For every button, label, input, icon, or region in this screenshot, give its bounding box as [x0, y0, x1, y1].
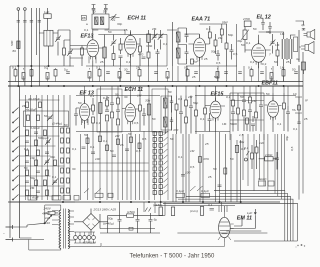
- svg-text:25: 25: [192, 75, 196, 79]
- wire T2 links: [178, 28, 187, 64]
- B3 column x176: [175, 96, 178, 135]
- svg-text:100: 100: [185, 171, 190, 175]
- strip stub wires: [16, 68, 284, 82]
- resistor vert x202: [190, 207, 204, 216]
- speaker matching box: [294, 37, 298, 52]
- svg-text:50: 50: [241, 43, 245, 47]
- screen box V6 osc: [152, 89, 168, 132]
- output transformer T3: [282, 38, 292, 60]
- T2 trimmer bottom: [185, 47, 189, 60]
- svg-text:5µ: 5µ: [64, 68, 68, 72]
- T2 cross: [176, 32, 180, 58]
- svg-text:30µ: 30µ: [239, 140, 244, 144]
- screen box B3 IF can: [161, 96, 172, 130]
- ladder rails: [26, 95, 71, 200]
- svg-text:EAA 71: EAA 71: [192, 17, 211, 23]
- antenna jack A1: [17, 8, 20, 86]
- svg-text:25: 25: [100, 60, 104, 64]
- T2 trimmer top: [185, 30, 189, 43]
- svg-text:10p: 10p: [30, 156, 35, 160]
- ladder row y182: [20, 176, 65, 186]
- ladder row y142: [20, 136, 56, 146]
- svg-text:0,1: 0,1: [246, 41, 251, 45]
- cap marks x211: [208, 203, 214, 210]
- middle switch arrows: [84, 189, 101, 194]
- text 80 coil: [13, 49, 17, 53]
- svg-text:ECH 11: ECH 11: [128, 16, 146, 22]
- wires left of V1: [70, 46, 87, 59]
- svg-text:0,2: 0,2: [250, 60, 255, 64]
- osc trimmer 1: [152, 30, 158, 50]
- middle verticals: [81, 131, 150, 200]
- svg-text:EBF11: EBF11: [262, 81, 278, 87]
- coupling caps top: [261, 18, 272, 34]
- detector extra text: [204, 27, 238, 61]
- svg-text:0,5: 0,5: [190, 165, 195, 169]
- psu switch arrows: [145, 208, 151, 212]
- svg-text:0,5: 0,5: [233, 52, 238, 56]
- psu box 01u: [129, 227, 133, 230]
- detector top wire: [200, 24, 237, 66]
- B3 column x181: [179, 96, 183, 134]
- svg-text:25: 25: [204, 142, 209, 146]
- svg-text:50µ: 50µ: [108, 217, 113, 221]
- ZB box: [81, 16, 86, 21]
- V7 right column x238: [237, 93, 240, 131]
- svg-text:0,5: 0,5: [290, 146, 294, 151]
- svg-text:80: 80: [13, 49, 17, 53]
- pilot stubs: [76, 232, 94, 243]
- IF can2 trimmers: [170, 96, 173, 131]
- wire speakers down: [296, 21, 304, 62]
- svg-text:0,5: 0,5: [216, 61, 221, 65]
- svg-text:30: 30: [124, 68, 128, 72]
- svg-text:2M: 2M: [187, 95, 193, 99]
- svg-text:2M: 2M: [22, 104, 27, 108]
- svg-text:50: 50: [103, 10, 107, 14]
- svg-text:50: 50: [108, 30, 112, 34]
- V8 right parts: [283, 93, 291, 132]
- svg-text:0,1: 0,1: [178, 97, 183, 101]
- svg-text:50: 50: [92, 10, 96, 14]
- ladder box outline: [24, 111, 69, 127]
- ladder row y132: [20, 126, 60, 136]
- wire antenna verticals: [31, 8, 39, 86]
- capacitor C3b: [38, 21, 41, 23]
- trimmer right of T1: [109, 14, 120, 20]
- netz boxes: [258, 177, 274, 186]
- misc text sprinkle 4: [90, 137, 234, 179]
- IF can2 cross: [164, 98, 168, 127]
- tube V2 ECH11: [125, 32, 137, 58]
- V2 right parts column: [139, 38, 146, 66]
- right margin text: [292, 92, 308, 131]
- tube V8 EBF11: [268, 97, 279, 120]
- svg-text:50: 50: [78, 101, 82, 105]
- svg-text:30: 30: [124, 95, 128, 99]
- osc lower parts: [147, 49, 160, 66]
- svg-text:50p: 50p: [193, 101, 198, 105]
- svg-text:0,5: 0,5: [136, 149, 141, 153]
- svg-text:EF13: EF13: [81, 34, 94, 40]
- mains switch: [44, 215, 52, 224]
- row2 rail y95.5: [76, 95, 296, 97]
- svg-text:6-25: 6-25: [103, 96, 109, 100]
- right horizontals to corners: [163, 191, 297, 241]
- row2 text c: [226, 95, 257, 126]
- svg-text:1M: 1M: [275, 43, 280, 47]
- capacitor C1: [17, 21, 20, 23]
- decoupling strip parts: [14, 70, 298, 80]
- svg-text:50: 50: [84, 133, 88, 137]
- ladder right cluster: [61, 128, 70, 193]
- svg-text:0,1: 0,1: [24, 147, 29, 151]
- V1 left resistor R3: [81, 46, 84, 67]
- svg-text:0,1: 0,1: [206, 27, 211, 31]
- svg-text:3-30µF: 3-30µF: [30, 126, 41, 130]
- bottom frame line: [234, 240, 297, 242]
- wire converter bottom: [86, 30, 167, 66]
- svg-text:2M: 2M: [218, 36, 223, 40]
- V5 column x118 parts: [116, 96, 120, 131]
- V7 right column x244: [242, 93, 246, 131]
- svg-text:50p: 50p: [228, 33, 233, 37]
- bus wire y86: [8, 85, 303, 87]
- svg-text:17kΩ: 17kΩ: [265, 153, 273, 157]
- mains plug: [3, 225, 13, 242]
- trimmer C5: [55, 30, 61, 56]
- middle field parts: [82, 136, 142, 157]
- svg-text:2x: 2x: [112, 18, 116, 22]
- dirt specks: [296, 244, 306, 247]
- svg-text:240V: 240V: [43, 207, 52, 211]
- svg-text:0,1: 0,1: [52, 175, 57, 179]
- osc coil L2: [147, 30, 151, 52]
- tube V7 EF15: [210, 98, 221, 122]
- psu wires: [100, 202, 164, 233]
- wire V7 connections: [205, 86, 225, 132]
- svg-text:(zum): (zum): [190, 209, 198, 213]
- svg-text:30µ: 30µ: [285, 136, 289, 141]
- svg-text:25: 25: [304, 117, 308, 121]
- capacitor C6 above T1: [92, 5, 96, 15]
- top mid extra text: [84, 10, 128, 33]
- misc text sprinkle 3: [22, 104, 77, 190]
- svg-text:2M: 2M: [30, 186, 35, 190]
- svg-text:50: 50: [170, 137, 174, 141]
- svg-text:2G13 280V, A25: 2G13 280V, A25: [93, 208, 117, 212]
- long verticals mid-right: [173, 132, 241, 202]
- svg-text:0,1: 0,1: [84, 28, 89, 32]
- wire V3 connections: [185, 34, 210, 66]
- svg-text:0,1: 0,1: [90, 94, 95, 98]
- pilot lamps: [74, 236, 96, 240]
- capacitor C7 above T1: [104, 5, 108, 15]
- speaker SP1: [304, 30, 315, 40]
- volume pot R9: [241, 27, 249, 53]
- V6 right column x144: [142, 108, 146, 126]
- bus wire y202: [8, 201, 280, 203]
- V7 right column x256: [255, 93, 258, 131]
- capacitor C2: [23, 21, 26, 23]
- antenna jack A2: [24, 8, 27, 86]
- contact bank rails: [155, 131, 168, 202]
- fuse F1: [27, 211, 58, 225]
- column x120 parts: [119, 38, 123, 66]
- svg-text:0,1: 0,1: [277, 122, 282, 126]
- speaker SP2: [301, 42, 314, 54]
- tube V6 ECH11: [125, 100, 136, 125]
- V7 left parts: [204, 96, 212, 132]
- right margin sockets: [295, 97, 302, 124]
- svg-text:30p: 30p: [145, 99, 150, 103]
- column right of V1 winding: [103, 35, 106, 67]
- svg-text:110: 110: [45, 221, 50, 225]
- svg-text:12k: 12k: [259, 141, 264, 145]
- trimmer column x113: [111, 35, 117, 67]
- V3 far right parts: [225, 24, 234, 66]
- wire V4 connections: [245, 35, 271, 68]
- ladder bottom links: [10, 202, 75, 238]
- V5 right rect stack: [92, 98, 95, 131]
- B3 column x191: [189, 96, 193, 134]
- svg-text:50: 50: [230, 157, 234, 161]
- power transformer core: [64, 209, 66, 249]
- selector taps text: [43, 207, 52, 226]
- svg-text:50: 50: [214, 75, 218, 79]
- IF can T1 box: [92, 14, 109, 29]
- svg-text:30p: 30p: [266, 30, 271, 34]
- filter cap C50: [108, 213, 122, 233]
- converter box outline: [98, 30, 167, 66]
- T1 cross marks: [95, 17, 104, 25]
- EM11 wires: [224, 206, 242, 226]
- svg-text:a: a: [86, 22, 88, 26]
- svg-text:500µµF: 500µµF: [38, 136, 50, 140]
- ladder row y162: [20, 156, 65, 166]
- svg-text:7: 7: [269, 53, 271, 57]
- right long verticals: [299, 62, 303, 200]
- T2 winding bottom: [176, 48, 180, 58]
- ladder box parts: [26, 108, 62, 126]
- svg-text:~: ~: [3, 231, 5, 235]
- right vertical texts: [285, 136, 294, 151]
- svg-text:gr: gr: [305, 98, 308, 102]
- bus wire y81.5: [8, 81, 303, 83]
- svg-text:500: 500: [10, 41, 14, 46]
- svg-text:470: 470: [138, 53, 143, 57]
- cap box 1uF: [44, 10, 51, 18]
- svg-text:EF15: EF15: [211, 92, 225, 98]
- svg-text:25: 25: [208, 175, 212, 179]
- svg-text:0,1: 0,1: [248, 66, 253, 70]
- svg-text:(4µ): (4µ): [222, 20, 228, 24]
- V5 column x107 parts: [105, 96, 109, 131]
- right cluster box text: [265, 153, 273, 157]
- svg-text:1M: 1M: [280, 32, 285, 36]
- svg-text:(0-44µ): (0-44µ): [52, 122, 62, 126]
- transformer taps: [29, 205, 74, 250]
- svg-text:25: 25: [286, 60, 290, 64]
- V5 pin stubs: [82, 119, 89, 125]
- mid-right bottom boxes: [176, 189, 210, 197]
- V4 right parts: [276, 42, 279, 66]
- svg-text:50: 50: [110, 149, 114, 153]
- osc trimmer 2: [158, 30, 164, 50]
- detector bottom parts: [186, 59, 237, 66]
- svg-text:50: 50: [266, 92, 270, 96]
- svg-text:25: 25: [124, 28, 128, 32]
- ladder bottom boxes: [28, 196, 61, 201]
- wire left feed x172: [167, 22, 177, 66]
- V1 pins: [89, 56, 96, 63]
- ladder top row: [20, 97, 60, 108]
- pilot wires: [74, 232, 96, 245]
- svg-text:0,1: 0,1: [96, 66, 101, 70]
- svg-text:30p: 30p: [117, 22, 122, 26]
- rectifier text: [93, 208, 117, 212]
- middle field text: [84, 132, 141, 161]
- choke box 15ohm: [127, 210, 135, 217]
- svg-text:2M: 2M: [136, 66, 141, 70]
- svg-text:2M: 2M: [152, 27, 157, 31]
- V3 right column c: [220, 24, 223, 43]
- svg-text:(a=40µ): (a=40µ): [103, 222, 114, 226]
- wire to output transformer: [259, 32, 296, 66]
- svg-text:EM 11: EM 11: [237, 216, 252, 222]
- svg-text:47Ω: 47Ω: [203, 157, 209, 161]
- wire V1 connections: [82, 29, 103, 66]
- input coil L1: [44, 30, 53, 66]
- svg-text:5000: 5000: [230, 122, 237, 126]
- el12 extra text: [246, 27, 290, 66]
- V5 winding box: [99, 96, 102, 132]
- svg-text:1M: 1M: [190, 149, 195, 153]
- svg-text:4µ: 4µ: [296, 57, 300, 61]
- field coil: [302, 62, 306, 74]
- ladder row y172: [20, 170, 51, 176]
- B3 column x196: [195, 96, 198, 135]
- wire V5 connections: [76, 96, 92, 129]
- selector tap lines: [52, 211, 59, 225]
- mid-right parts: [181, 145, 246, 186]
- svg-text:(Netz): (Netz): [258, 177, 266, 181]
- psu stub verticals: [144, 202, 165, 216]
- screen box V5 coils: [97, 89, 122, 132]
- svg-text:0,1: 0,1: [90, 145, 95, 149]
- row2 rail y131.5: [76, 131, 230, 133]
- middle horizontals: [81, 163, 149, 171]
- tube V9 EM11: [218, 212, 234, 242]
- svg-text:50: 50: [44, 114, 48, 118]
- right cluster texts: [239, 133, 264, 150]
- svg-text:0,5: 0,5: [142, 137, 147, 141]
- value 500 vertical: [10, 41, 14, 46]
- V7 box inner horizontals: [230, 101, 264, 121]
- svg-text:50: 50: [213, 167, 217, 171]
- svg-text:0,1: 0,1: [178, 155, 183, 159]
- wire x47 vertical: [47, 8, 49, 30]
- switch contacts column: [12, 108, 18, 201]
- svg-text:1M: 1M: [222, 122, 227, 126]
- B3 column x186: [185, 96, 188, 135]
- svg-text:0,5: 0,5: [134, 121, 139, 125]
- V4 trimmer right: [270, 34, 276, 54]
- svg-text:4,7V/0,3A: 4,7V/0,3A: [83, 241, 97, 245]
- svg-text:0,1: 0,1: [208, 203, 213, 207]
- V5 column x112 parts: [110, 96, 114, 131]
- EM11 cap 1uF: [247, 209, 257, 229]
- IF can2 winding top: [164, 96, 168, 114]
- svg-text:125: 125: [45, 216, 50, 220]
- ladder row y192: [20, 190, 60, 200]
- svg-text:1µF: 1µF: [44, 10, 50, 14]
- V3 right column b: [214, 34, 217, 54]
- tube V3 EAA: [193, 35, 205, 61]
- svg-text:50: 50: [128, 132, 132, 136]
- misc text sprinkle: [86, 22, 300, 65]
- svg-text:50p: 50p: [211, 50, 216, 54]
- resistor vert x173: [171, 207, 174, 216]
- EM11 up wires: [219, 202, 227, 212]
- svg-text:0,1: 0,1: [72, 147, 77, 151]
- svg-text:1M: 1M: [252, 99, 257, 103]
- cap above SP1: [301, 23, 305, 30]
- verticals crossing strip to bus: [93, 66, 299, 82]
- middle bottom boxes: [95, 193, 113, 197]
- svg-text:A/µF: A/µF: [31, 196, 40, 200]
- svg-text:1M: 1M: [280, 66, 285, 70]
- EM11 heater link: [101, 242, 224, 247]
- strip text labels: [12, 66, 296, 80]
- svg-text:50: 50: [152, 117, 156, 121]
- svg-text:0,1: 0,1: [12, 66, 17, 70]
- svg-text:50: 50: [253, 27, 257, 31]
- svg-text:50: 50: [274, 60, 278, 64]
- svg-text:50: 50: [44, 66, 48, 70]
- svg-text:50: 50: [64, 123, 68, 127]
- T2 winding top: [176, 32, 180, 42]
- svg-text:2M: 2M: [114, 134, 120, 138]
- bridge wires: [74, 209, 108, 236]
- row2 text b: [137, 94, 150, 103]
- junction dots topleft: [18, 65, 50, 66]
- svg-text:100: 100: [95, 157, 100, 161]
- B3 texts: [168, 90, 198, 132]
- V7 right column x250: [248, 93, 252, 132]
- contact bank pairs: [153, 131, 168, 194]
- mid-right switch arrows: [190, 186, 203, 191]
- V7 right column x233: [231, 93, 235, 132]
- svg-text:40-18µF: 40-18µF: [28, 97, 41, 101]
- wire V8 connections: [265, 93, 282, 132]
- V3 right column a: [208, 26, 211, 44]
- capacitor C3: [30, 21, 33, 23]
- V7 extra columns: [246, 116, 256, 132]
- mid-right texts2: [190, 142, 217, 171]
- V5 left cap: [74, 108, 78, 126]
- resistor vert x160: [153, 203, 162, 216]
- svg-text:50: 50: [168, 90, 172, 94]
- antenna coil L0: [17, 41, 20, 49]
- svg-text:0,1: 0,1: [96, 121, 101, 125]
- T1 winding a: [95, 17, 98, 25]
- T1 winding b: [100, 17, 103, 25]
- svg-text:470: 470: [173, 128, 178, 132]
- V3 right cap: [216, 50, 220, 61]
- svg-text:0,2: 0,2: [262, 62, 267, 66]
- svg-text:25: 25: [120, 143, 124, 147]
